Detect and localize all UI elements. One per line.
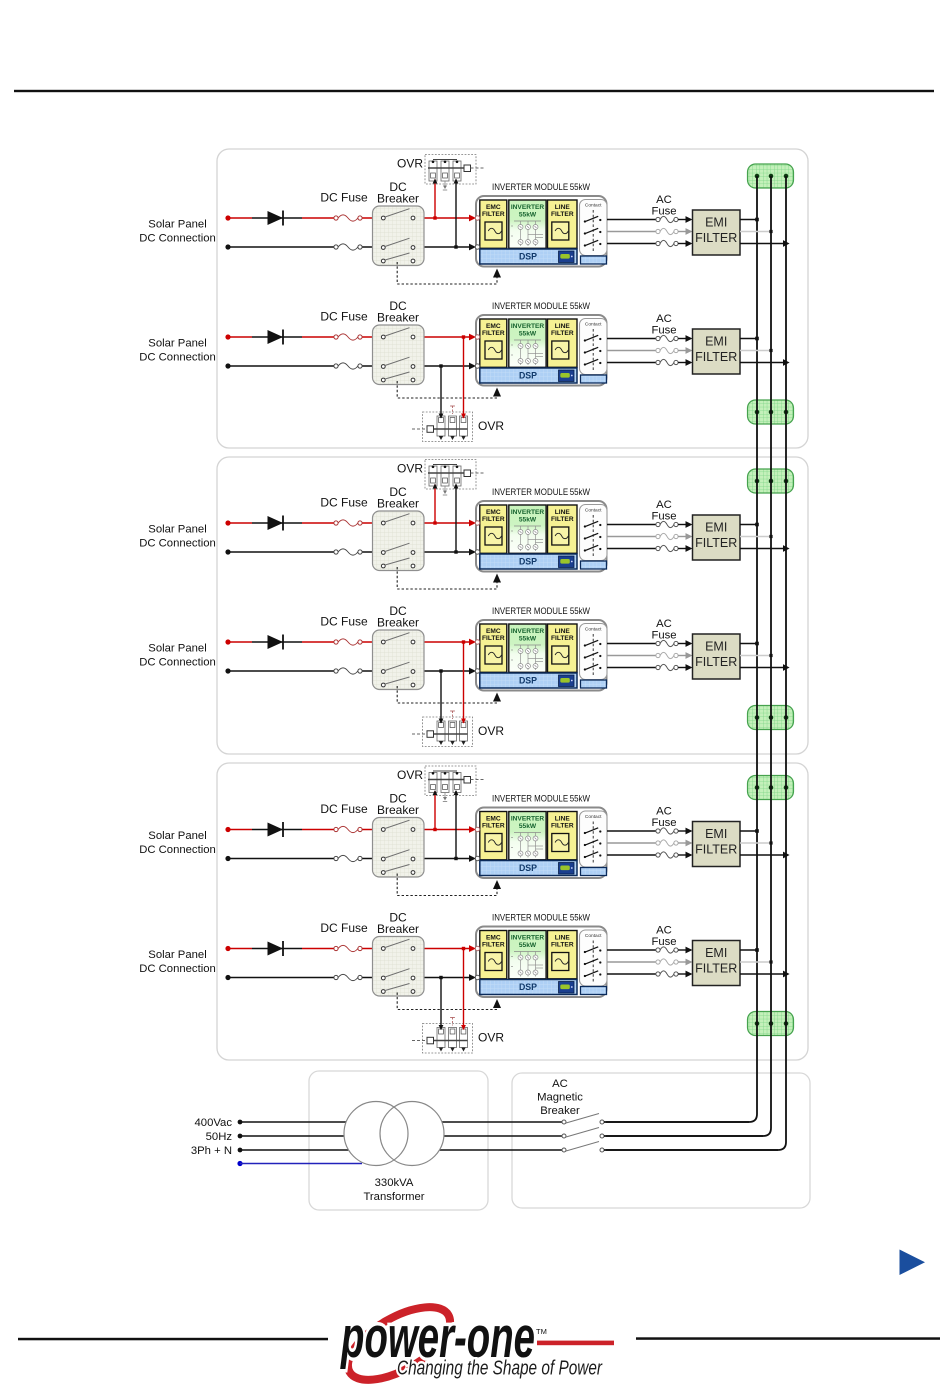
trip link CB4 to U4 [397, 686, 501, 703]
svg-text:FILTER: FILTER [482, 635, 505, 642]
svg-text:Transformer: Transformer [363, 1191, 424, 1203]
label Q1 [537, 1078, 583, 1117]
svg-text:EMI: EMI [705, 827, 727, 841]
wire DC- riser to OVR [439, 669, 444, 723]
wire neutral [240, 1163, 362, 1165]
ac fuse F2L3 [656, 359, 678, 365]
svg-text:Breaker: Breaker [377, 192, 419, 206]
wire DC- riser to OVR [454, 179, 459, 249]
svg-text:TM: TM [536, 1327, 547, 1336]
svg-text:Fuse: Fuse [651, 206, 676, 218]
terminal block TB5 [748, 776, 794, 800]
dc fuse F4- [334, 668, 362, 674]
svg-text:EMI: EMI [705, 216, 727, 230]
inverter bridge U3.2 [509, 505, 546, 553]
inverter bridge U2.2 [509, 319, 546, 367]
svg-text:400Vac: 400Vac [195, 1117, 233, 1129]
svg-text:Solar Panel: Solar Panel [148, 830, 206, 842]
wire U3 phase L2 [607, 536, 656, 538]
diode D4 [268, 635, 284, 650]
node DC- CH6 [225, 975, 230, 980]
node DC+ CH4 [225, 639, 230, 644]
dc fuse F2- [334, 363, 362, 369]
junction [769, 654, 772, 657]
ac fuse F6L1 [656, 947, 678, 953]
surge arrester OVR1 [425, 155, 484, 191]
emi filter FL4 [693, 634, 741, 679]
dc breaker CB5 [373, 818, 425, 878]
junction [783, 664, 790, 671]
wire U1 phase L1 [607, 219, 656, 221]
ac fuse F2L1 [656, 335, 678, 341]
svg-text:DC Connection: DC Connection [139, 963, 216, 975]
svg-text:Contact: Contact [585, 203, 602, 209]
logo tagline [397, 1358, 603, 1380]
ac bus phase L3 [606, 176, 786, 1150]
label AC Fuse CH3 [651, 499, 676, 523]
ac bus phase L1 [606, 176, 757, 1122]
svg-text:AC: AC [656, 499, 672, 511]
input terminal DC+ [475, 335, 479, 339]
wire DC- [228, 244, 476, 251]
svg-text:FILTER: FILTER [695, 536, 737, 550]
svg-text:Fuse: Fuse [651, 630, 676, 642]
svg-text:EMC: EMC [486, 935, 501, 942]
inverter bridge U6.2 [509, 931, 546, 979]
node DC+ CH3 [225, 520, 230, 525]
junction [783, 545, 790, 552]
svg-text:FILTER: FILTER [482, 942, 505, 949]
wire U6 phase L3 [607, 973, 656, 975]
junction [783, 852, 790, 859]
svg-text:DC Connection: DC Connection [139, 538, 216, 550]
line filter U2.3 [548, 319, 578, 367]
wire U5 phase L3 [607, 854, 656, 856]
dc breaker CB6 [373, 937, 425, 997]
panel group 1 [217, 149, 808, 448]
ac fuse F5L2 [656, 840, 678, 846]
wire [678, 228, 692, 235]
inverter module U3 [475, 501, 607, 572]
terminal block TB3 [748, 469, 794, 493]
node DC+ CH2 [225, 334, 230, 339]
ac fuse F1L2 [656, 228, 678, 234]
wire U3 phase L3 [607, 548, 656, 550]
ac fuse F4L2 [656, 652, 678, 658]
wire DC- [228, 363, 476, 370]
DSP U6.4 [480, 980, 577, 995]
inverter bridge U4.2 [509, 624, 546, 672]
wire DC- [228, 668, 476, 675]
svg-text:EMC: EMC [486, 509, 501, 516]
svg-text:Breaker: Breaker [377, 497, 419, 511]
wire to bus [740, 842, 771, 844]
wire [678, 521, 692, 528]
svg-text:DSP: DSP [519, 557, 537, 567]
ac fuse F1L3 [656, 240, 678, 246]
trip link CB6 to U6 [397, 993, 501, 1010]
line filter U5.3 [548, 812, 578, 860]
svg-text:Contact: Contact [585, 933, 602, 939]
svg-text:INVERTER: INVERTER [511, 816, 545, 823]
svg-text:55kW: 55kW [519, 517, 537, 524]
dc breaker CB4 [373, 630, 425, 690]
svg-text:Magnetic: Magnetic [537, 1092, 583, 1104]
wire DC+ riser to OVR [461, 640, 466, 723]
ac fuse F3L1 [656, 521, 678, 527]
svg-text:INVERTER: INVERTER [511, 509, 545, 516]
DSP U3.4 [480, 554, 577, 569]
wire to bus [740, 643, 757, 645]
wire DC+ riser to OVR [461, 335, 466, 418]
logo wordmark [340, 1305, 535, 1370]
dc fuse F5- [334, 855, 362, 861]
terminal block TB4 [748, 706, 794, 730]
ac fuse F4L1 [656, 640, 678, 646]
svg-text:Contact: Contact [585, 322, 602, 328]
svg-text:FILTER: FILTER [482, 823, 505, 830]
wire U2 phase L2 [607, 350, 656, 352]
label mains input [191, 1117, 232, 1157]
svg-text:AC: AC [656, 194, 672, 206]
inverter module U5 [475, 808, 607, 879]
wire [678, 240, 692, 247]
wire L3 [240, 1149, 562, 1151]
svg-text:AC: AC [656, 313, 672, 325]
svg-text:OVR: OVR [478, 419, 504, 433]
terminal block TB2 [748, 400, 794, 424]
svg-text:Breaker: Breaker [377, 616, 419, 630]
dc fuse F4+ [334, 639, 362, 645]
svg-text:Changing the Shape of Power: Changing the Shape of Power [397, 1358, 603, 1380]
surge arrester OVR2 [412, 406, 473, 442]
svg-text:Breaker: Breaker [377, 803, 419, 817]
wire [678, 664, 692, 671]
svg-text:INVERTER MODULE 55kW: INVERTER MODULE 55kW [492, 301, 590, 311]
svg-text:FILTER: FILTER [551, 635, 574, 642]
wire [678, 971, 692, 978]
svg-text:Contact: Contact [585, 508, 602, 514]
svg-text:Fuse: Fuse [651, 817, 676, 829]
svg-text:FILTER: FILTER [695, 655, 737, 669]
dc fuse F1+ [334, 215, 362, 221]
trip link CB3 to U3 [397, 567, 501, 589]
wire [678, 959, 692, 966]
svg-text:INVERTER MODULE 55kW: INVERTER MODULE 55kW [492, 794, 590, 804]
svg-text:LINE: LINE [555, 509, 571, 516]
svg-text:OVR: OVR [397, 768, 423, 782]
svg-text:FILTER: FILTER [482, 516, 505, 523]
svg-text:DSP: DSP [519, 371, 537, 381]
trip link CB2 to U2 [397, 381, 501, 398]
wire to bus [740, 961, 771, 963]
wire [678, 533, 692, 540]
svg-text:50Hz: 50Hz [206, 1131, 233, 1143]
EMC filter U3.1 [480, 505, 507, 553]
svg-text:Contact: Contact [585, 627, 602, 633]
label AC Fuse CH2 [651, 313, 676, 337]
bottom rule right [636, 1337, 940, 1340]
svg-text:LINE: LINE [555, 323, 571, 330]
wire DC+ riser to OVR [433, 484, 438, 525]
svg-text:OVR: OVR [478, 724, 504, 738]
wire DC+ [228, 826, 476, 833]
surge arrester OVR3 [425, 460, 484, 496]
surge arrester OVR4 [412, 711, 473, 747]
dc fuse F6+ [334, 945, 362, 951]
node mains L2 [238, 1134, 243, 1139]
EMC filter U2.1 [480, 319, 507, 367]
wire DC+ riser to OVR [461, 947, 466, 1030]
svg-text:AC: AC [552, 1078, 568, 1090]
wire [678, 347, 692, 354]
wire to bus [740, 536, 771, 538]
junction [755, 218, 759, 222]
label T1 [363, 1177, 424, 1203]
node DC- CH2 [225, 363, 230, 368]
ac magnetic breaker Q1 [562, 1114, 604, 1153]
svg-text:DC Connection: DC Connection [139, 233, 216, 245]
svg-text:LINE: LINE [555, 628, 571, 635]
ac fuse F6L2 [656, 959, 678, 965]
EMC filter U4.1 [480, 624, 507, 672]
surge arrester OVR6 [412, 1018, 473, 1054]
dc fuse F6- [334, 974, 362, 980]
dc fuse F2+ [334, 334, 362, 340]
wire [678, 640, 692, 647]
inverter bridge U1.2 [509, 200, 546, 248]
wire Q1 to bus L2 [604, 1135, 763, 1137]
input terminal DC+ [475, 946, 479, 950]
wire U4 phase L2 [607, 655, 656, 657]
svg-text:FILTER: FILTER [551, 211, 574, 218]
svg-text:EMC: EMC [486, 323, 501, 330]
terminal block TB6 [748, 1012, 794, 1036]
junction [755, 829, 759, 833]
svg-text:FILTER: FILTER [695, 231, 737, 245]
ac bus phase L2 [606, 176, 771, 1136]
DSP U1.4 [480, 249, 577, 264]
svg-text:Breaker: Breaker [377, 311, 419, 325]
wire to bus [740, 830, 757, 832]
svg-text:55kW: 55kW [519, 823, 537, 830]
wire U2 phase L3 [607, 362, 656, 364]
solar input label CH5 [139, 830, 216, 856]
wire [678, 359, 692, 366]
wire [678, 947, 692, 954]
contactor K5 [580, 811, 608, 876]
wire [678, 652, 692, 659]
DSP U4.4 [480, 673, 577, 688]
wire to bus [740, 854, 786, 856]
svg-text:DSP: DSP [519, 676, 537, 686]
inverter module U1 [475, 196, 607, 267]
svg-text:FILTER: FILTER [551, 942, 574, 949]
diode D2 [268, 330, 284, 345]
wire DC- [228, 549, 476, 556]
inverter module U6 [475, 927, 607, 998]
diode D6 [268, 941, 284, 956]
diode D1 [268, 211, 284, 226]
svg-text:INVERTER: INVERTER [511, 935, 545, 942]
wire to bus [740, 338, 757, 340]
input terminal DC+ [475, 521, 479, 525]
solar input label CH3 [139, 524, 216, 550]
solar input label CH2 [139, 338, 216, 364]
wire U5 phase L2 [607, 842, 656, 844]
svg-text:DC Fuse: DC Fuse [320, 191, 368, 205]
svg-text:DSP: DSP [519, 863, 537, 873]
input terminal DC- [475, 856, 479, 860]
surge arrester OVR5 [425, 766, 484, 802]
line filter U3.3 [548, 505, 578, 553]
junction [783, 359, 790, 366]
svg-text:INVERTER: INVERTER [511, 323, 545, 330]
wire to bus [740, 524, 757, 526]
svg-text:FILTER: FILTER [551, 823, 574, 830]
node mains L1 [238, 1120, 243, 1125]
wire to bus [740, 949, 757, 951]
line filter U4.3 [548, 624, 578, 672]
junction [769, 960, 772, 963]
wire DC- riser to OVR [454, 484, 459, 554]
wire Q1 to bus L3 [604, 1149, 778, 1151]
wire DC+ [228, 945, 476, 952]
node neutral N [237, 1161, 242, 1166]
panel group 3 [217, 763, 808, 1060]
svg-text:EMI: EMI [705, 946, 727, 960]
contactor K6 [580, 930, 608, 995]
svg-text:DC Fuse: DC Fuse [320, 921, 368, 935]
wire to bus [740, 350, 771, 352]
svg-text:55kW: 55kW [519, 212, 537, 219]
label AC Fuse CH6 [651, 925, 676, 949]
wire L1 [240, 1121, 562, 1123]
node DC- CH1 [225, 244, 230, 249]
svg-text:EMI: EMI [705, 335, 727, 349]
svg-text:Contact: Contact [585, 814, 602, 820]
wire to bus [740, 973, 786, 975]
svg-text:INVERTER MODULE 55kW: INVERTER MODULE 55kW [492, 606, 590, 616]
svg-text:AC: AC [656, 925, 672, 937]
svg-text:FILTER: FILTER [695, 962, 737, 976]
dc fuse F3+ [334, 520, 362, 526]
solar input label CH6 [139, 949, 216, 975]
wire DC+ [228, 215, 476, 222]
svg-text:Solar Panel: Solar Panel [148, 643, 206, 655]
svg-text:Breaker: Breaker [377, 922, 419, 936]
emi filter FL2 [693, 329, 741, 374]
svg-text:55kW: 55kW [519, 331, 537, 338]
wire DC- [228, 855, 476, 862]
junction [769, 535, 772, 538]
input terminal DC+ [475, 827, 479, 831]
junction [783, 971, 790, 978]
input terminal DC- [475, 550, 479, 554]
svg-text:FILTER: FILTER [482, 211, 505, 218]
svg-text:INVERTER MODULE 55kW: INVERTER MODULE 55kW [492, 487, 590, 497]
junction [769, 349, 772, 352]
wire to bus [740, 243, 786, 245]
ac fuse F5L3 [656, 852, 678, 858]
svg-text:OVR: OVR [397, 462, 423, 476]
junction [755, 523, 759, 527]
svg-text:DC Connection: DC Connection [139, 657, 216, 669]
input terminal DC+ [475, 640, 479, 644]
wire to bus [740, 219, 757, 221]
wire DC+ riser to OVR [433, 179, 438, 220]
ac fuse F2L2 [656, 347, 678, 353]
svg-text:DC Fuse: DC Fuse [320, 615, 368, 629]
wire DC- riser to OVR [439, 364, 444, 418]
svg-text:OVR: OVR [478, 1031, 504, 1045]
node DC+ CH5 [225, 827, 230, 832]
transformer T1 [344, 1102, 444, 1166]
input terminal DC- [475, 669, 479, 673]
svg-text:3Ph + N: 3Ph + N [191, 1145, 232, 1157]
line filter U6.3 [548, 931, 578, 979]
svg-text:FILTER: FILTER [695, 350, 737, 364]
wire U1 phase L2 [607, 231, 656, 233]
svg-text:OVR: OVR [397, 157, 423, 171]
contactor K4 [580, 624, 608, 689]
svg-text:Solar Panel: Solar Panel [148, 338, 206, 350]
node DC+ CH1 [225, 215, 230, 220]
svg-text:EMC: EMC [486, 816, 501, 823]
svg-text:EMC: EMC [486, 204, 501, 211]
ac fuse F3L3 [656, 545, 678, 551]
wire U3 phase L1 [607, 524, 656, 526]
node mains L3 [238, 1148, 243, 1153]
svg-text:DSP: DSP [519, 252, 537, 262]
input terminal DC+ [475, 216, 479, 220]
ac fuse F3L2 [656, 533, 678, 539]
svg-text:EMI: EMI [705, 640, 727, 654]
EMC filter U1.1 [480, 200, 507, 248]
emi filter FL3 [693, 515, 741, 560]
dc breaker CB2 [373, 325, 425, 385]
wire [678, 216, 692, 223]
wire [678, 335, 692, 342]
wire U5 phase L1 [607, 830, 656, 832]
bottom rule left [18, 1338, 328, 1341]
logo swoosh [337, 1292, 462, 1389]
wire U6 phase L1 [607, 949, 656, 951]
junction [769, 841, 772, 844]
panel transformer [309, 1071, 488, 1210]
ac fuse F1L1 [656, 216, 678, 222]
wire to bus [740, 548, 786, 550]
input terminal DC- [475, 245, 479, 249]
trip link CB1 to U1 [397, 262, 501, 284]
wire DC+ [228, 334, 476, 341]
wire U4 phase L1 [607, 643, 656, 645]
emi filter FL1 [693, 210, 741, 255]
wire DC+ riser to OVR [433, 790, 438, 831]
emi filter FL5 [693, 822, 741, 867]
nav arrow [900, 1250, 926, 1276]
contactor K2 [580, 319, 608, 384]
svg-text:Fuse: Fuse [651, 936, 676, 948]
wire [678, 545, 692, 552]
dc fuse F5+ [334, 826, 362, 832]
svg-text:LINE: LINE [555, 204, 571, 211]
junction [755, 948, 759, 952]
svg-text:Solar Panel: Solar Panel [148, 949, 206, 961]
node DC- CH3 [225, 549, 230, 554]
label AC Fuse CH5 [651, 806, 676, 830]
ac fuse F4L3 [656, 664, 678, 670]
